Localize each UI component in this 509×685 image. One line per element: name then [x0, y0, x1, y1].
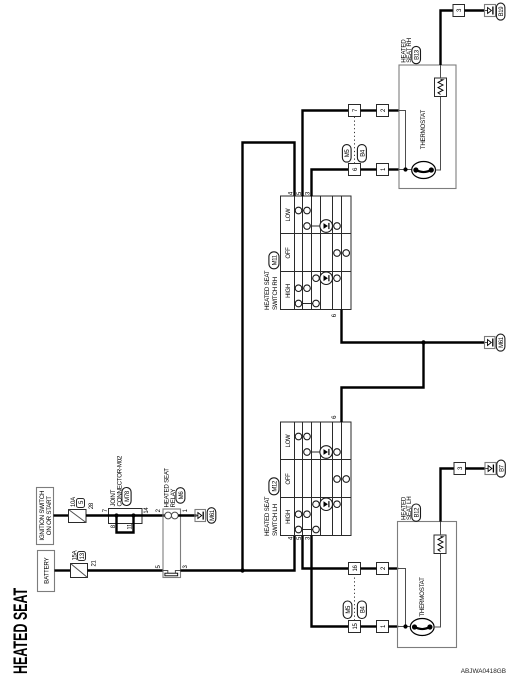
heated seat RH unit box B13: [399, 38, 456, 188]
junction ground branch: [421, 340, 425, 344]
svg-text:M6: M6: [179, 491, 185, 500]
svg-text:1: 1: [381, 624, 387, 628]
M11 LOW contact 4-5: [295, 207, 310, 214]
M11 pin labels 4 5 3 6: [289, 191, 339, 317]
wire M11 pin 6 to ground M61: [342, 310, 485, 343]
wire M12 pin 5 to connector M5 pin 16: [303, 536, 350, 569]
wire fuse 13 to relay contact, pin 21: [88, 559, 164, 570]
thermostat LH: [410, 577, 434, 636]
joint connector M02 box M78: [103, 455, 150, 523]
fuse 15A 13: [71, 550, 88, 577]
svg-text:28: 28: [89, 502, 95, 509]
svg-text:6: 6: [332, 313, 338, 317]
wire LH pin 2 into seat unit: [389, 567, 399, 569]
heated seat relay box M6: [163, 468, 185, 578]
svg-text:13: 13: [80, 552, 86, 559]
fuse 10A 5: [69, 497, 87, 523]
wire battery to fuse 13: [55, 569, 71, 571]
wire through joint connector: [108, 514, 143, 516]
svg-text:3: 3: [183, 565, 189, 569]
wire between LH connector rows pin16-pin2: [361, 567, 377, 569]
M12 pin labels 4 5 3 6: [289, 415, 339, 540]
svg-text:M61: M61: [210, 509, 216, 521]
svg-text:M12: M12: [273, 480, 279, 492]
relay contact pins 5 and 3: [156, 565, 189, 576]
svg-text:5: 5: [79, 500, 85, 504]
svg-text:M78: M78: [125, 490, 131, 502]
svg-text:6: 6: [332, 415, 338, 419]
M12 HIGH contact 4-3: [295, 526, 319, 533]
svg-text:BATTERY: BATTERY: [44, 557, 51, 583]
svg-text:M61: M61: [499, 336, 505, 348]
heated seat LH unit box B12: [398, 496, 457, 647]
M12 LOW LED chain: [304, 446, 341, 459]
junction node RH: [403, 167, 407, 171]
wire fuse 5 to joint connector, pin 28: [86, 502, 109, 515]
connector M5/B4 LH pins 16-2: [349, 563, 389, 575]
wire relay output down to M12 pin 4: [181, 536, 295, 571]
svg-text:2: 2: [381, 566, 387, 570]
RH internal wire pin2 to thermostat node: [399, 111, 406, 170]
M12 HIGH contact 4-5: [295, 511, 310, 518]
M11 OFF contact: [334, 250, 350, 257]
M11 HIGH contact 4-5: [295, 285, 310, 292]
heated seat switch LH M12: [264, 422, 351, 536]
wire RH pin 2 into seat unit: [389, 109, 400, 111]
wire ignition to fuse 5: [54, 514, 70, 516]
junction node LH: [403, 624, 407, 628]
wire M11 pin 5 to connector M5 pin 7: [303, 111, 350, 197]
connector M5/B4 LH pins 15-1: [349, 621, 389, 633]
svg-text:ON OR START: ON OR START: [46, 496, 53, 535]
svg-text:B19: B19: [499, 6, 505, 17]
M11 LOW LED chain: [304, 220, 341, 233]
wire between RH connector rows pin7-pin2: [361, 109, 377, 111]
LH internal wire pin2 to thermostat node: [398, 569, 406, 627]
svg-text:OFF: OFF: [286, 247, 292, 259]
heating element RH: [435, 78, 447, 97]
svg-text:7: 7: [353, 108, 359, 112]
connector M5/B4 RH pins 7-2: [349, 105, 389, 117]
heating element LH: [434, 535, 446, 554]
svg-text:THERMOSTAT: THERMOSTAT: [419, 577, 426, 617]
svg-text:B13: B13: [415, 49, 421, 60]
wire M11 pin 3 to connector M5 pin 6: [312, 170, 350, 197]
svg-text:5: 5: [156, 565, 162, 569]
relay coil: [165, 512, 179, 519]
svg-text:1: 1: [381, 167, 387, 171]
title HEATED SEAT: [10, 588, 31, 674]
svg-text:2: 2: [381, 108, 387, 112]
svg-text:B12: B12: [415, 507, 421, 518]
ignition switch source: [37, 488, 54, 545]
svg-text:4: 4: [289, 191, 295, 195]
wire between LH connector rows pin15-pin1: [361, 625, 377, 627]
svg-text:HEATED SEAT: HEATED SEAT: [264, 270, 271, 310]
svg-text:B4: B4: [360, 149, 366, 157]
joint connector bus pins 8 11: [111, 513, 136, 532]
LH internal wire element to box edge: [440, 522, 442, 536]
wire relay coil pin 1 to ground: [178, 508, 196, 515]
RH internal wire element to box edge: [440, 65, 442, 78]
svg-text:15: 15: [353, 623, 359, 630]
svg-text:4: 4: [289, 536, 295, 540]
M12 OFF contact: [334, 476, 350, 483]
svg-text:M11: M11: [273, 254, 279, 265]
svg-text:LOW: LOW: [286, 434, 292, 447]
ground M61 switches: [485, 334, 505, 351]
thermostat RH: [412, 110, 436, 179]
wire between RH connector rows pin6-pin1: [361, 168, 377, 170]
svg-text:14: 14: [144, 507, 150, 514]
svg-text:21: 21: [91, 559, 97, 566]
svg-text:1: 1: [183, 508, 189, 512]
svg-text:8: 8: [111, 524, 117, 528]
RH internal wire pin1 to node: [399, 169, 412, 171]
ground B7: [485, 460, 505, 477]
svg-text:LOW: LOW: [286, 208, 292, 221]
battery B+ source: [38, 551, 55, 592]
LH internal wire thermostat to element: [434, 554, 440, 628]
wire joint connector to relay coil, pin 2: [142, 508, 165, 515]
connector M5/B4 RH pins 6-1: [349, 164, 389, 176]
dashed connector link LH with ovals M5 B4: [343, 575, 366, 621]
wire RH pin 1 into seat unit: [389, 168, 400, 170]
svg-text:HIGH: HIGH: [286, 284, 292, 298]
svg-text:SWITCH RH: SWITCH RH: [272, 277, 279, 310]
svg-text:M5: M5: [345, 149, 351, 158]
svg-text:2: 2: [156, 508, 162, 512]
svg-text:6: 6: [353, 167, 359, 171]
wire M12 pin 3 to connector M5 pin 15: [312, 536, 350, 627]
ground M61 relay: [195, 508, 216, 524]
svg-text:16: 16: [353, 565, 359, 572]
svg-text:HEATED SEAT: HEATED SEAT: [10, 588, 31, 674]
svg-text:7: 7: [103, 508, 109, 512]
svg-text:THERMOSTAT: THERMOSTAT: [420, 110, 427, 150]
M12 LOW contact 4-5: [295, 433, 310, 440]
wire LH unit to ground, pin 3: [441, 463, 486, 522]
ground B19: [485, 3, 506, 20]
LH internal wire pin1 to node: [398, 626, 411, 628]
M11 HIGH contact 4-3: [295, 300, 319, 307]
svg-text:3: 3: [457, 8, 463, 12]
svg-text:HIGH: HIGH: [286, 510, 292, 524]
svg-text:HEATED SEAT: HEATED SEAT: [264, 496, 271, 536]
svg-text:B7: B7: [499, 464, 505, 472]
junction feed branch: [240, 568, 244, 572]
wire M12 pin 6 branch: [342, 343, 424, 423]
M12 HIGH LED indicator: [313, 498, 341, 511]
wire LH pin 1 into seat unit: [389, 625, 399, 627]
dashed connector link RH with ovals M5 B4: [342, 117, 366, 164]
svg-text:11: 11: [128, 523, 134, 530]
RH internal wire thermostat to element: [436, 97, 441, 171]
svg-text:OFF: OFF: [286, 473, 292, 485]
M11 HIGH LED indicator: [313, 272, 341, 285]
svg-text:SWITCH LH: SWITCH LH: [272, 504, 279, 536]
svg-text:3: 3: [458, 466, 464, 470]
heated seat switch RH M11: [264, 196, 351, 310]
svg-text:B4: B4: [360, 605, 366, 613]
svg-text:M5: M5: [346, 605, 352, 614]
switch contact link segments: [302, 211, 343, 515]
wire feed branch to M11 pin 4: [243, 143, 295, 571]
wire RH unit to ground, pin 3: [441, 5, 486, 66]
